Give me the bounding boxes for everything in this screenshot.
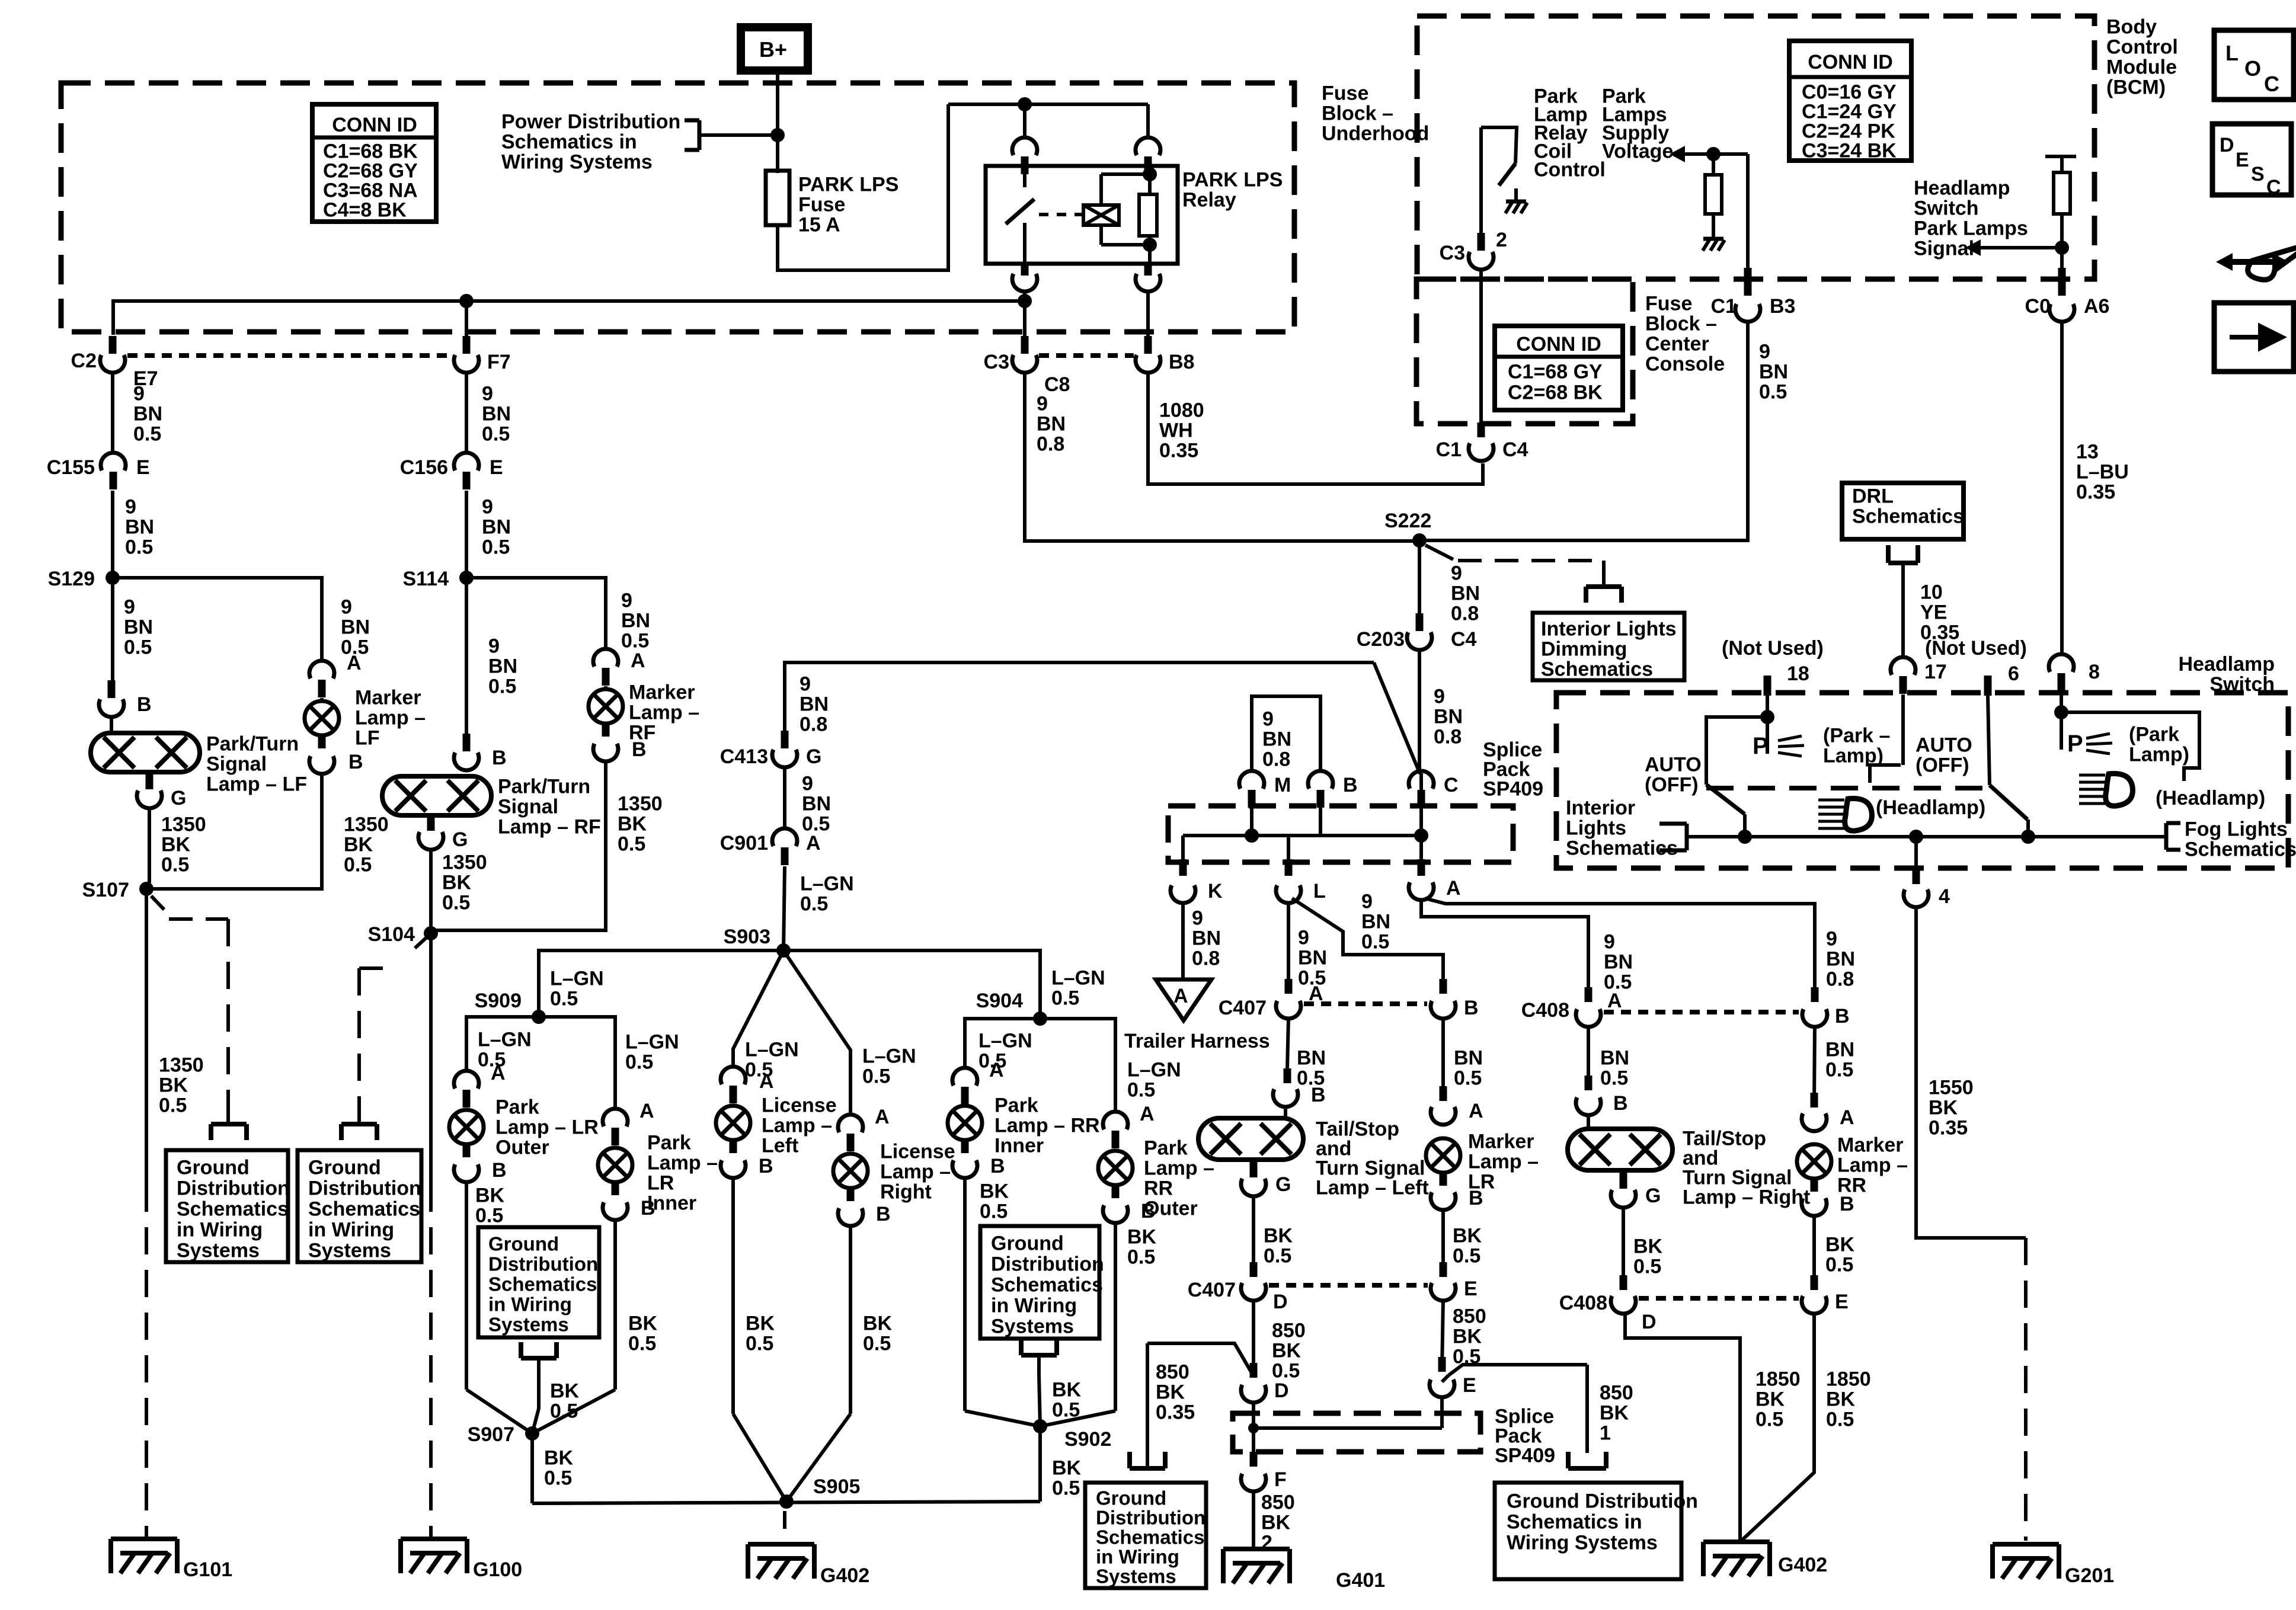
svg-text:S: S: [2251, 163, 2265, 185]
node relay feed: [1018, 97, 1032, 111]
svg-text:1350: 1350: [442, 852, 487, 874]
node S903: [776, 943, 791, 958]
lamp marker RR: [1797, 1144, 1831, 1179]
svg-text:Fuse: Fuse: [798, 194, 845, 216]
switch2 park arm: [2061, 712, 2199, 781]
wire 850 BK 0.35 into D: [1147, 1343, 1253, 1376]
switch1 blade to common: [1743, 814, 1747, 837]
svg-text:BK: BK: [475, 1185, 505, 1207]
svg-text:9: 9: [488, 635, 500, 658]
connector A license left: [721, 1067, 746, 1084]
svg-text:0.5: 0.5: [344, 854, 372, 876]
wire C407A to tail left B: [1287, 1018, 1288, 1068]
wire splice A to C408 B: [1425, 898, 1815, 1000]
svg-text:Interior Lights: Interior Lights: [1541, 618, 1677, 641]
switch2 pin8 down: [2060, 680, 2063, 712]
splice pack SP409 bottom dashed box: [1233, 1413, 1480, 1452]
svg-text:850: 850: [1272, 1320, 1306, 1342]
fuse block underhood dashed box: [61, 83, 1294, 332]
svg-text:Systems: Systems: [991, 1315, 1074, 1338]
wire supply to B3: [1746, 154, 1750, 268]
dashed tick at S104: [415, 936, 428, 948]
svg-text:B3: B3: [1770, 295, 1795, 318]
svg-text:1350: 1350: [618, 793, 663, 815]
svg-text:15 A: 15 A: [798, 214, 840, 236]
stub park LR outer: [463, 1142, 471, 1157]
svg-text:0.5: 0.5: [980, 1201, 1008, 1223]
svg-text:0.8: 0.8: [1192, 948, 1220, 970]
svg-text:Schematics in: Schematics in: [501, 131, 637, 153]
svg-text:0.35: 0.35: [1156, 1401, 1195, 1424]
svg-text:0.5: 0.5: [1633, 1256, 1661, 1278]
svg-text:Lamp – RF: Lamp – RF: [498, 816, 601, 838]
svg-text:in Wiring: in Wiring: [1096, 1546, 1179, 1568]
svg-text:B: B: [348, 751, 363, 773]
svg-text:A: A: [1840, 1106, 1854, 1129]
node S907: [525, 1426, 539, 1441]
svg-text:(Headlamp): (Headlamp): [1876, 796, 1985, 819]
stub license left: [730, 1138, 737, 1153]
svg-text:(BCM): (BCM): [2106, 76, 2166, 99]
svg-text:9: 9: [1826, 928, 1837, 950]
connector C407 D lower: [1241, 1283, 1266, 1301]
mini ground supply: [1703, 237, 1723, 241]
wire oval LF to G: [148, 772, 151, 783]
svg-text:Schematics in: Schematics in: [1507, 1511, 1642, 1534]
svg-text:L–GN: L–GN: [978, 1030, 1032, 1052]
wire S903 left to S909: [539, 950, 784, 1017]
box ground distribution bottom center: [1085, 1483, 1206, 1588]
svg-text:8: 8: [2089, 661, 2100, 683]
svg-text:C203: C203: [1357, 628, 1405, 651]
svg-text:S905: S905: [813, 1475, 860, 1498]
switch inner dashed: [1706, 786, 1990, 790]
svg-text:C8: C8: [1044, 373, 1070, 396]
svg-text:BN: BN: [802, 793, 831, 815]
svg-text:0.8: 0.8: [1037, 433, 1064, 456]
wire GD LR to S907: [532, 1375, 539, 1433]
svg-text:B: B: [1840, 1193, 1854, 1215]
svg-text:C1: C1: [1436, 438, 1462, 461]
wire S904 right branch: [1040, 1019, 1115, 1112]
B+ battery symbol: [741, 27, 808, 71]
wire LR inner B down: [613, 1219, 617, 1390]
svg-text:0.8: 0.8: [800, 713, 827, 736]
svg-text:PARK LPS: PARK LPS: [1182, 169, 1283, 191]
wire 850 BK 0.35 riser: [1146, 1343, 1149, 1453]
svg-text:C3=24 BK: C3=24 BK: [1802, 140, 1897, 162]
svg-text:0.5: 0.5: [482, 423, 510, 446]
BCM relay driver switch: [1481, 127, 1517, 164]
svg-text:G: G: [1645, 1185, 1661, 1207]
svg-text:(Park: (Park: [2129, 724, 2179, 746]
svg-text:Park: Park: [647, 1132, 691, 1154]
stub marker LR: [1440, 1171, 1447, 1186]
wire S104 down solid: [429, 933, 433, 1185]
svg-text:C408: C408: [1521, 999, 1569, 1022]
switch2 blade to common: [2026, 820, 2030, 837]
svg-text:BN: BN: [124, 616, 153, 639]
connector A park RR outer: [1103, 1112, 1128, 1129]
svg-text:Distribution: Distribution: [1096, 1507, 1205, 1529]
lamp park RR inner: [948, 1106, 982, 1140]
connector C156 pin E: [454, 453, 479, 470]
svg-text:A: A: [631, 649, 645, 672]
svg-text:Ground: Ground: [488, 1233, 559, 1255]
svg-text:1080: 1080: [1159, 399, 1204, 422]
svg-text:850: 850: [1156, 1361, 1189, 1384]
svg-text:Marker: Marker: [1837, 1134, 1904, 1157]
svg-text:Left: Left: [762, 1135, 798, 1157]
svg-text:9: 9: [1037, 393, 1048, 415]
wire RR inner B down: [963, 1177, 967, 1411]
lamp marker RF: [589, 689, 623, 724]
connector C1 B3 stub: [1744, 268, 1752, 296]
svg-text:Inner: Inner: [994, 1135, 1044, 1157]
svg-text:C3: C3: [1440, 242, 1465, 264]
svg-text:0.35: 0.35: [2076, 481, 2115, 504]
svg-text:BK: BK: [550, 1380, 580, 1403]
svg-text:Systems: Systems: [488, 1314, 569, 1336]
svg-text:0.5: 0.5: [550, 1400, 578, 1423]
svg-text:0.5: 0.5: [124, 636, 152, 659]
underhood CONN ID table: [312, 104, 436, 222]
switch2 pin6 arm: [1988, 696, 1990, 785]
wire C413 to C901: [783, 767, 786, 828]
wire B to oval LF: [110, 716, 113, 735]
connector C1 C4: [1469, 443, 1494, 461]
connector F: [1241, 1474, 1266, 1491]
svg-text:A: A: [759, 1070, 774, 1093]
svg-text:BN: BN: [1361, 911, 1390, 933]
svg-text:0.35: 0.35: [1159, 440, 1198, 462]
svg-text:Marker: Marker: [629, 681, 695, 704]
svg-text:BN: BN: [1298, 947, 1327, 969]
trailer harness triangle A: [1156, 980, 1211, 1020]
svg-text:G: G: [806, 745, 821, 768]
svg-text:BN: BN: [1451, 582, 1480, 605]
wire A6 down: [2060, 248, 2064, 268]
svg-text:BK: BK: [1127, 1226, 1157, 1249]
svg-text:B: B: [759, 1155, 773, 1177]
connector A splice out: [1409, 882, 1434, 900]
svg-text:0.5: 0.5: [161, 854, 189, 876]
svg-text:License: License: [880, 1141, 955, 1163]
wire C203 to splice C: [1418, 649, 1421, 772]
wire F7 to C156: [465, 372, 468, 453]
svg-text:Voltage: Voltage: [1602, 140, 1673, 163]
node junction on B+ wire: [770, 128, 785, 142]
switch1 headlamp contact: [1870, 765, 1901, 783]
relay switch common: [1023, 167, 1027, 187]
dashed tick at S107: [151, 896, 164, 910]
svg-text:Wiring Systems: Wiring Systems: [1507, 1532, 1658, 1554]
svg-text:0.5: 0.5: [1825, 1059, 1853, 1081]
svg-text:BK: BK: [442, 872, 472, 894]
svg-text:9: 9: [125, 496, 136, 518]
svg-text:BK: BK: [344, 834, 373, 856]
svg-text:AUTO: AUTO: [1916, 734, 1972, 757]
headlamp switch dashed box: [1556, 693, 2288, 868]
svg-text:9: 9: [1361, 891, 1373, 913]
svg-text:RR: RR: [1144, 1177, 1173, 1200]
wire S107 dashed to ground G101: [145, 1185, 148, 1539]
connector C splice: [1409, 771, 1434, 789]
wire C156 to S114: [465, 491, 468, 578]
wire S903 diag left license: [733, 950, 784, 1067]
lamp marker LR: [1426, 1138, 1460, 1173]
svg-text:S107: S107: [82, 879, 129, 901]
svg-text:Ground: Ground: [1096, 1487, 1166, 1509]
svg-text:0.5: 0.5: [482, 536, 510, 559]
svg-text:L–GN: L–GN: [1051, 967, 1105, 990]
wire C407D to lower D: [1252, 1300, 1255, 1376]
svg-text:Distribution: Distribution: [991, 1253, 1104, 1276]
relay pin 86 internal: [1148, 166, 1152, 174]
wire S222 down to C203: [1418, 540, 1421, 625]
icon double arrow: [2216, 253, 2233, 271]
svg-text:G402: G402: [820, 1564, 869, 1587]
wire S104 dashed to ground G100: [429, 1185, 433, 1539]
svg-text:BK: BK: [980, 1180, 1009, 1203]
svg-text:S129: S129: [48, 568, 95, 590]
svg-text:Signal: Signal: [206, 753, 267, 776]
bracket GD right lower: [1568, 1466, 1606, 1471]
wire marker LF B to S107: [146, 773, 322, 889]
wire C408A to tail right B: [1587, 1026, 1590, 1089]
connector A park RR inner: [952, 1068, 977, 1086]
svg-text:Marker: Marker: [1468, 1131, 1534, 1153]
svg-text:850: 850: [1453, 1305, 1486, 1328]
wire B3 to S222: [1419, 321, 1748, 540]
svg-text:0.5: 0.5: [1051, 987, 1079, 1010]
svg-text:Schematics: Schematics: [2185, 838, 2296, 861]
wire relay feed horizontal: [948, 103, 1148, 106]
lamp tail/stop right oval: [1568, 1129, 1673, 1170]
svg-text:1350: 1350: [344, 814, 389, 836]
svg-text:B: B: [1343, 774, 1358, 796]
svg-text:13: 13: [2076, 441, 2099, 463]
svg-text:B: B: [1141, 1200, 1156, 1222]
wire S114 branch right: [466, 578, 606, 651]
relay PARK LPS box: [986, 166, 1178, 264]
svg-text:Schematics: Schematics: [1096, 1526, 1204, 1548]
svg-text:BK: BK: [1600, 1402, 1629, 1425]
connector A park LR inner: [603, 1109, 628, 1126]
svg-text:Fuse: Fuse: [1322, 82, 1368, 105]
fuse PARK LPS 15A: [766, 171, 789, 225]
off-page bracket power distribution: [698, 120, 702, 150]
svg-text:BN: BN: [1604, 951, 1633, 974]
connector B tail right: [1576, 1097, 1601, 1115]
svg-text:BN: BN: [482, 516, 511, 539]
svg-text:Lamp – Right: Lamp – Right: [1683, 1186, 1810, 1209]
svg-text:B: B: [876, 1203, 891, 1225]
svg-text:B: B: [1613, 1092, 1628, 1115]
connector E lower2: [1430, 1379, 1454, 1397]
wire marker RF B to S104: [431, 761, 606, 930]
inline dotted C407 upper: [1304, 1001, 1427, 1006]
inline connector dotted line C3-C8: [1039, 353, 1134, 358]
svg-text:0.5: 0.5: [550, 988, 578, 1010]
svg-text:(Park –: (Park –: [1823, 725, 1890, 747]
wire tail left B to oval: [1284, 1106, 1287, 1120]
connector B park turn RF: [454, 753, 479, 770]
svg-text:BN: BN: [1297, 1047, 1326, 1070]
ground G100: [401, 1537, 467, 1541]
connector C901 pin A: [772, 828, 797, 846]
dashed wire S222 to dimming bracket: [1458, 559, 1604, 562]
svg-text:0.5: 0.5: [1127, 1246, 1155, 1269]
svg-text:Distribution: Distribution: [488, 1253, 598, 1275]
svg-text:BK: BK: [1755, 1388, 1785, 1411]
dashed tick S222: [1425, 545, 1453, 559]
svg-text:(OFF): (OFF): [1916, 754, 1969, 777]
svg-text:Lamp – LR: Lamp – LR: [495, 1116, 599, 1139]
svg-text:C901: C901: [720, 832, 768, 854]
bracket GD RR below: [1021, 1353, 1057, 1358]
connector B park RR outer: [1103, 1205, 1128, 1223]
svg-text:Headlamp: Headlamp: [1914, 177, 2010, 200]
svg-text:0.5: 0.5: [1052, 1477, 1080, 1500]
node common blade2: [2021, 830, 2035, 844]
svg-text:E: E: [2236, 149, 2249, 171]
wire S909 right branch: [539, 1017, 615, 1109]
svg-text:9: 9: [1262, 708, 1274, 731]
svg-text:BK: BK: [628, 1313, 658, 1335]
svg-text:A: A: [1607, 990, 1622, 1012]
svg-text:(Headlamp): (Headlamp): [2156, 787, 2265, 809]
svg-text:Lamp –: Lamp –: [1468, 1151, 1539, 1173]
svg-text:0.5: 0.5: [800, 893, 828, 916]
svg-text:0.5: 0.5: [863, 1333, 891, 1355]
wire tail left G down: [1252, 1196, 1255, 1262]
splice bar: [1183, 834, 1422, 837]
lamp license left: [716, 1106, 750, 1140]
svg-text:0.5: 0.5: [442, 892, 470, 914]
svg-text:CONN ID: CONN ID: [1808, 51, 1893, 73]
svg-text:S903: S903: [724, 926, 770, 948]
wire K to trailer triangle: [1181, 902, 1185, 980]
svg-text:1: 1: [1600, 1422, 1611, 1445]
svg-text:Signal: Signal: [498, 796, 558, 818]
wire marker LF stub: [320, 698, 324, 702]
node S129: [105, 571, 120, 585]
dashed elbow S104 to GD box2: [359, 966, 396, 970]
wire C to bar: [1419, 773, 1423, 836]
svg-text:9: 9: [1451, 562, 1462, 585]
svg-text:Schematics: Schematics: [1852, 505, 1964, 528]
lamp park/turn signal RF oval: [382, 776, 491, 815]
box ground distribution schematics 1: [166, 1150, 288, 1262]
icon DESC box: [2212, 124, 2291, 195]
pin 17 stub inner: [1901, 694, 1905, 765]
bracket interior lights schematics: [1659, 822, 1687, 826]
connector A marker RR: [1802, 1113, 1827, 1131]
svg-text:G100: G100: [473, 1558, 522, 1581]
A6 top tick: [2045, 155, 2076, 158]
svg-text:BN: BN: [1192, 927, 1221, 950]
svg-text:1850: 1850: [1755, 1368, 1801, 1391]
svg-text:BK: BK: [746, 1313, 775, 1335]
connector B park turn LF: [99, 699, 124, 717]
ground G402 right: [1703, 1539, 1770, 1544]
connector B marker LR: [1431, 1192, 1456, 1210]
connector C3 pin 2 BCM: [1469, 252, 1494, 270]
connector C203 C4: [1407, 632, 1432, 650]
connector D lower2: [1241, 1385, 1266, 1403]
wire A6 to pin8: [2060, 321, 2064, 655]
svg-text:S904: S904: [976, 990, 1023, 1012]
wire tail right B to oval: [1587, 1115, 1590, 1131]
bracket GD box2: [357, 1109, 361, 1124]
wire C8 down-right to S222: [1025, 372, 1419, 541]
svg-text:A: A: [1140, 1103, 1155, 1125]
svg-text:0.5: 0.5: [1755, 1409, 1783, 1431]
wire C407B to marker LR A: [1441, 1018, 1445, 1097]
svg-text:Systems: Systems: [1096, 1566, 1176, 1587]
svg-text:Schematics: Schematics: [1566, 837, 1678, 860]
node splice C: [1414, 828, 1428, 843]
switch1 wire pin18 down: [1766, 696, 1769, 717]
svg-text:C: C: [2264, 72, 2279, 96]
svg-text:L–GN: L–GN: [1127, 1059, 1181, 1081]
svg-text:L: L: [1313, 880, 1326, 902]
svg-text:B: B: [641, 1197, 655, 1219]
node S107: [139, 882, 154, 896]
svg-text:AUTO: AUTO: [1645, 754, 1702, 776]
svg-text:C4: C4: [1451, 628, 1477, 651]
svg-text:B: B: [492, 747, 507, 769]
svg-text:9: 9: [133, 383, 145, 405]
stub park LR inner: [612, 1180, 619, 1195]
svg-text:Distribution: Distribution: [177, 1177, 290, 1200]
svg-text:BK: BK: [1633, 1235, 1663, 1258]
svg-text:LF: LF: [355, 727, 380, 750]
svg-text:Schematics: Schematics: [308, 1198, 420, 1221]
svg-text:0.5: 0.5: [1361, 931, 1389, 953]
console CONN ID table: [1495, 326, 1623, 410]
connector C3 pin C8: [1012, 355, 1037, 373]
wire fuse to relay riser: [778, 104, 948, 270]
svg-text:D: D: [1274, 1379, 1289, 1402]
svg-text:BK: BK: [863, 1313, 893, 1335]
svg-text:9: 9: [1192, 907, 1203, 930]
switch2 park contact stem: [2060, 712, 2063, 750]
svg-text:Power Distribution: Power Distribution: [501, 111, 680, 133]
svg-text:CONN ID: CONN ID: [1516, 333, 1601, 356]
svg-text:A: A: [1469, 1100, 1483, 1122]
switch1 auto arm: [1706, 717, 1767, 785]
svg-text:Body: Body: [2106, 16, 2157, 39]
connector G park turn LF: [137, 790, 162, 808]
svg-text:G101: G101: [183, 1558, 232, 1581]
wire E bracket down: [1585, 1365, 1589, 1453]
svg-text:1350: 1350: [159, 1054, 204, 1077]
wire C413 riser to splice C: [785, 662, 1374, 742]
svg-text:Dimming: Dimming: [1541, 638, 1627, 661]
pin 4 wire from common: [1914, 837, 1918, 866]
svg-text:850: 850: [1261, 1491, 1295, 1514]
svg-text:Marker: Marker: [355, 687, 421, 709]
svg-text:Headlamp: Headlamp: [2179, 653, 2275, 676]
svg-text:Underhood: Underhood: [1322, 123, 1429, 145]
svg-text:BK: BK: [1453, 1225, 1482, 1247]
connector relay pin bottom-left: [1012, 274, 1037, 292]
svg-text:PARK LPS: PARK LPS: [798, 174, 898, 196]
svg-text:9: 9: [482, 383, 493, 405]
svg-text:BN: BN: [1600, 1047, 1629, 1070]
